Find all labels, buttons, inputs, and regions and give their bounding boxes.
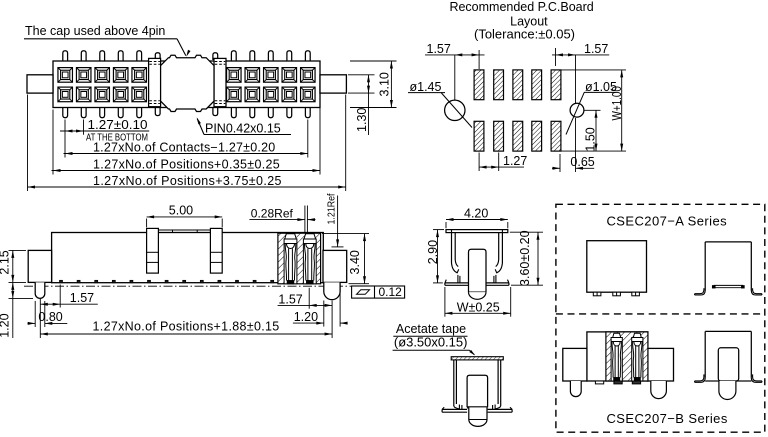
svg-text:1.27xNo.of Positions+0.35±0.2: 1.27xNo.of Positions+0.35±0.25: [93, 157, 280, 171]
svg-text:(ø3.50x0.15): (ø3.50x0.15): [394, 336, 468, 350]
svg-text:CSEC207−B Series: CSEC207−B Series: [607, 411, 728, 426]
svg-text:1.27±0.10: 1.27±0.10: [88, 118, 148, 132]
svg-text:1.20: 1.20: [0, 313, 11, 337]
svg-text:3.40: 3.40: [348, 250, 362, 274]
svg-text:1.27xNo.of Contacts−1.27±0.20: 1.27xNo.of Contacts−1.27±0.20: [93, 140, 275, 154]
svg-text:1.20: 1.20: [294, 310, 318, 324]
svg-text:0.80: 0.80: [38, 310, 62, 324]
svg-text:CSEC207−A Series: CSEC207−A Series: [607, 214, 728, 229]
svg-text:W+1.00: W+1.00: [610, 86, 624, 121]
svg-text:3.10: 3.10: [378, 72, 392, 96]
svg-text:Layout: Layout: [510, 15, 548, 29]
svg-text:Acetate tape: Acetate tape: [396, 322, 466, 336]
svg-text:1.27: 1.27: [503, 154, 527, 168]
svg-text:0.12: 0.12: [379, 285, 403, 299]
svg-text:1.27xNo.of Positions+3.75±0.2: 1.27xNo.of Positions+3.75±0.25: [93, 174, 282, 188]
svg-text:1.30: 1.30: [355, 108, 369, 132]
svg-text:2.90: 2.90: [426, 240, 440, 264]
svg-text:ø1.45: ø1.45: [410, 80, 442, 94]
svg-text:PIN0.42x0.15: PIN0.42x0.15: [205, 121, 281, 135]
svg-text:1.57: 1.57: [584, 42, 608, 56]
svg-text:(Tolerance:±0.05): (Tolerance:±0.05): [474, 28, 575, 42]
svg-text:1.27xNo.of Positions+1.88±0.1: 1.27xNo.of Positions+1.88±0.15: [93, 320, 280, 334]
svg-text:5.00: 5.00: [169, 204, 193, 218]
svg-text:The cap used above 4pin: The cap used above 4pin: [25, 24, 165, 38]
svg-text:0.28Ref: 0.28Ref: [251, 206, 294, 220]
svg-text:0.65: 0.65: [570, 155, 594, 169]
svg-text:1.21Ref: 1.21Ref: [326, 193, 338, 224]
svg-text:Recommended P.C.Board: Recommended P.C.Board: [449, 0, 593, 14]
svg-text:W±0.25: W±0.25: [457, 300, 500, 314]
svg-text:1.57: 1.57: [427, 42, 451, 56]
svg-text:3.60±0.20: 3.60±0.20: [518, 230, 532, 286]
svg-text:1.57: 1.57: [278, 292, 302, 306]
svg-text:4.20: 4.20: [464, 207, 488, 221]
svg-text:2.15: 2.15: [0, 250, 11, 274]
svg-text:1.57: 1.57: [70, 291, 94, 305]
svg-text:1.50: 1.50: [584, 127, 598, 151]
